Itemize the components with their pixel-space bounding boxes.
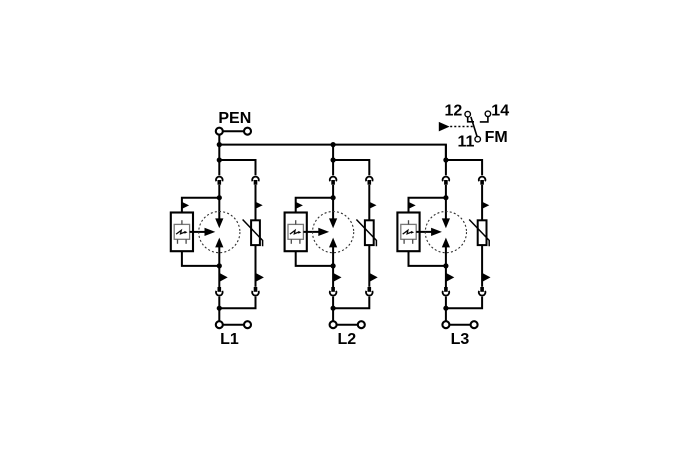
wire: trigger box L2 top lead <box>296 198 333 213</box>
thermal disconnect flag, L3 varistor leg top <box>482 202 489 209</box>
wire: L1 varistor leg lower <box>255 245 257 287</box>
junction node L1 trigger-box bottom tap <box>217 263 222 268</box>
wire: trigger box L2 bottom lead <box>296 251 333 266</box>
plug-in disconnect contact, L2 spark-gap leg bottom <box>331 287 335 292</box>
trigger circuit box L3 (surge-triggered control unit) <box>397 213 419 252</box>
junction node L1 trigger-box top tap <box>217 195 222 200</box>
contact 14 fixed lead <box>480 117 488 122</box>
actuator arrow for FM contact <box>439 122 450 131</box>
spark gap L2 (dashed circle) <box>313 212 354 253</box>
wire: L2 spark-gap leg upper <box>332 185 334 220</box>
varistor L3 <box>478 220 487 245</box>
wire: L1 varistor leg upper <box>255 185 257 221</box>
thermal disconnect flag, L2 varistor leg top <box>369 202 376 209</box>
thermal disconnect flag, L1 varistor leg bottom <box>256 273 264 282</box>
wire: trigger box L3 top lead <box>409 198 446 213</box>
svg-text:L1: L1 <box>220 331 239 348</box>
thermal disconnect flag, trigger box L1 <box>182 202 189 209</box>
spark gap L1 lower electrode arrow <box>215 238 223 248</box>
wire: L3 legs rejoin <box>445 297 447 321</box>
junction node L2 branch <box>331 157 336 162</box>
junction node bus at L2 <box>331 142 336 147</box>
svg-text:FM: FM <box>485 129 508 146</box>
thermal disconnect flag, trigger box L2 <box>296 202 303 209</box>
junction node L1 branch <box>217 157 222 162</box>
thermal disconnect flag, L1 spark-gap leg <box>219 273 227 282</box>
wire: L2 left branch from PEN bus down to disconnect <box>332 145 334 176</box>
actuator dashed link <box>450 126 473 128</box>
wire: L3 varistor leg upper <box>481 185 483 221</box>
wire: L3 left branch from PEN bus down to disconnect <box>445 145 447 176</box>
plug-in disconnect contact, L1 spark-gap leg top <box>216 177 223 182</box>
wire: trigger box L3 bottom lead <box>409 251 446 266</box>
lightning-surge arrow inside trigger element L3 <box>403 230 412 234</box>
varistor L1 <box>251 220 260 245</box>
contact 11 circle <box>475 136 481 142</box>
thermal disconnect flag, L3 varistor leg bottom <box>482 273 490 282</box>
svg-text:14: 14 <box>491 102 509 119</box>
plug-in disconnect contact, L2 varistor leg bottom <box>368 287 372 292</box>
contact 12 circle <box>465 111 471 117</box>
svg-text:PEN: PEN <box>218 110 251 127</box>
wire: L1 spark-gap leg lower <box>218 247 220 288</box>
trigger element (gas discharge tube) inside box L2 <box>288 224 303 239</box>
terminal L3 (double screw terminal) <box>442 321 449 328</box>
wire: trigger box L1 bottom lead <box>182 251 219 266</box>
wire: L2 varistor leg upper <box>368 185 370 221</box>
wire: PEN lead <box>218 135 220 146</box>
wire: L2 varistor leg lower <box>368 245 370 287</box>
wire: L3 spark-gap leg upper <box>445 185 447 220</box>
trigger arrow from box into spark gap L2 <box>303 231 319 233</box>
trigger arrow from box into spark gap L3 <box>416 231 432 233</box>
junction node L3 trigger-box top tap <box>443 195 448 200</box>
plug-in disconnect contact, L3 varistor leg top <box>479 177 486 182</box>
wire: L1 spark-gap leg upper <box>218 185 220 220</box>
thermal disconnect flag, L3 spark-gap leg <box>446 273 454 282</box>
trigger arrow from box into spark gap L1 <box>190 231 206 233</box>
junction node L2 bottom <box>331 306 336 311</box>
wire: L3 varistor leg lower <box>481 245 483 287</box>
contact 14 circle <box>485 111 491 117</box>
plug-in disconnect contact, L1 spark-gap leg bottom <box>218 287 222 292</box>
trigger circuit box L2 (surge-triggered control unit) <box>285 213 307 252</box>
terminal L1 (double screw terminal) <box>216 321 223 328</box>
spark gap L3 lower electrode arrow <box>442 238 450 248</box>
plug-in disconnect contact, L1 varistor leg bottom <box>254 287 258 292</box>
wire: L1 left branch from PEN bus down to disconnect <box>218 145 220 176</box>
spark gap L3 upper electrode arrow <box>442 218 450 228</box>
wire: L1 branch to varistor leg <box>219 160 255 175</box>
terminal L2 (double screw terminal) <box>330 321 337 328</box>
thermal disconnect flag, L1 varistor leg top <box>256 202 263 209</box>
junction node L3 branch <box>443 157 448 162</box>
wire: L1 legs rejoin <box>218 297 220 321</box>
thermal disconnect flag, L2 varistor leg bottom <box>369 273 377 282</box>
wire: PEN distribution bus <box>219 145 446 160</box>
svg-text:L3: L3 <box>451 331 470 348</box>
lightning-surge arrow inside trigger element L2 <box>290 230 299 234</box>
trigger element (gas discharge tube) inside box L1 <box>174 224 189 239</box>
wire: L2 spark-gap leg lower <box>332 247 334 288</box>
junction node bus at L1 <box>217 142 222 147</box>
plug-in disconnect contact, L2 spark-gap leg top <box>330 177 337 182</box>
junction node L3 trigger-box bottom tap <box>443 263 448 268</box>
svg-text:12: 12 <box>445 103 463 120</box>
plug-in disconnect contact, L3 spark-gap leg top <box>443 177 450 182</box>
trigger circuit box L1 (surge-triggered control unit) <box>171 213 193 252</box>
junction node L2 trigger-box bottom tap <box>331 263 336 268</box>
wire: L3 spark-gap leg lower <box>445 247 447 288</box>
plug-in disconnect contact, L1 varistor leg top <box>252 177 259 182</box>
spark gap L3 (dashed circle) <box>425 212 466 253</box>
wire: L2 branch to varistor leg <box>333 160 369 175</box>
junction node L2 trigger-box top tap <box>331 195 336 200</box>
thermal disconnect flag, trigger box L3 <box>409 202 416 209</box>
plug-in disconnect contact, L3 varistor leg bottom <box>480 287 484 292</box>
varistor L2 <box>365 220 374 245</box>
svg-text:11: 11 <box>458 134 475 151</box>
wire: L3 branch to varistor leg <box>446 160 482 175</box>
spark gap L1 upper electrode arrow <box>215 218 223 228</box>
plug-in disconnect contact, L2 varistor leg top <box>366 177 373 182</box>
spark gap L2 lower electrode arrow <box>329 238 337 248</box>
contact 12 fixed lead <box>468 118 474 122</box>
trigger element (gas discharge tube) inside box L3 <box>401 224 416 239</box>
spark gap L2 upper electrode arrow <box>329 218 337 228</box>
wire: L2 legs rejoin <box>332 297 334 321</box>
plug-in disconnect contact, L3 spark-gap leg bottom <box>444 287 448 292</box>
svg-text:L2: L2 <box>337 331 356 348</box>
spark gap L1 (dashed circle) <box>199 212 240 253</box>
contact 11 moving contact <box>471 117 477 136</box>
thermal disconnect flag, L2 spark-gap leg <box>333 273 341 282</box>
junction node L1 bottom <box>217 306 222 311</box>
junction node L3 bottom <box>443 306 448 311</box>
lightning-surge arrow inside trigger element L1 <box>176 230 185 234</box>
wire: trigger box L1 top lead <box>182 198 219 213</box>
